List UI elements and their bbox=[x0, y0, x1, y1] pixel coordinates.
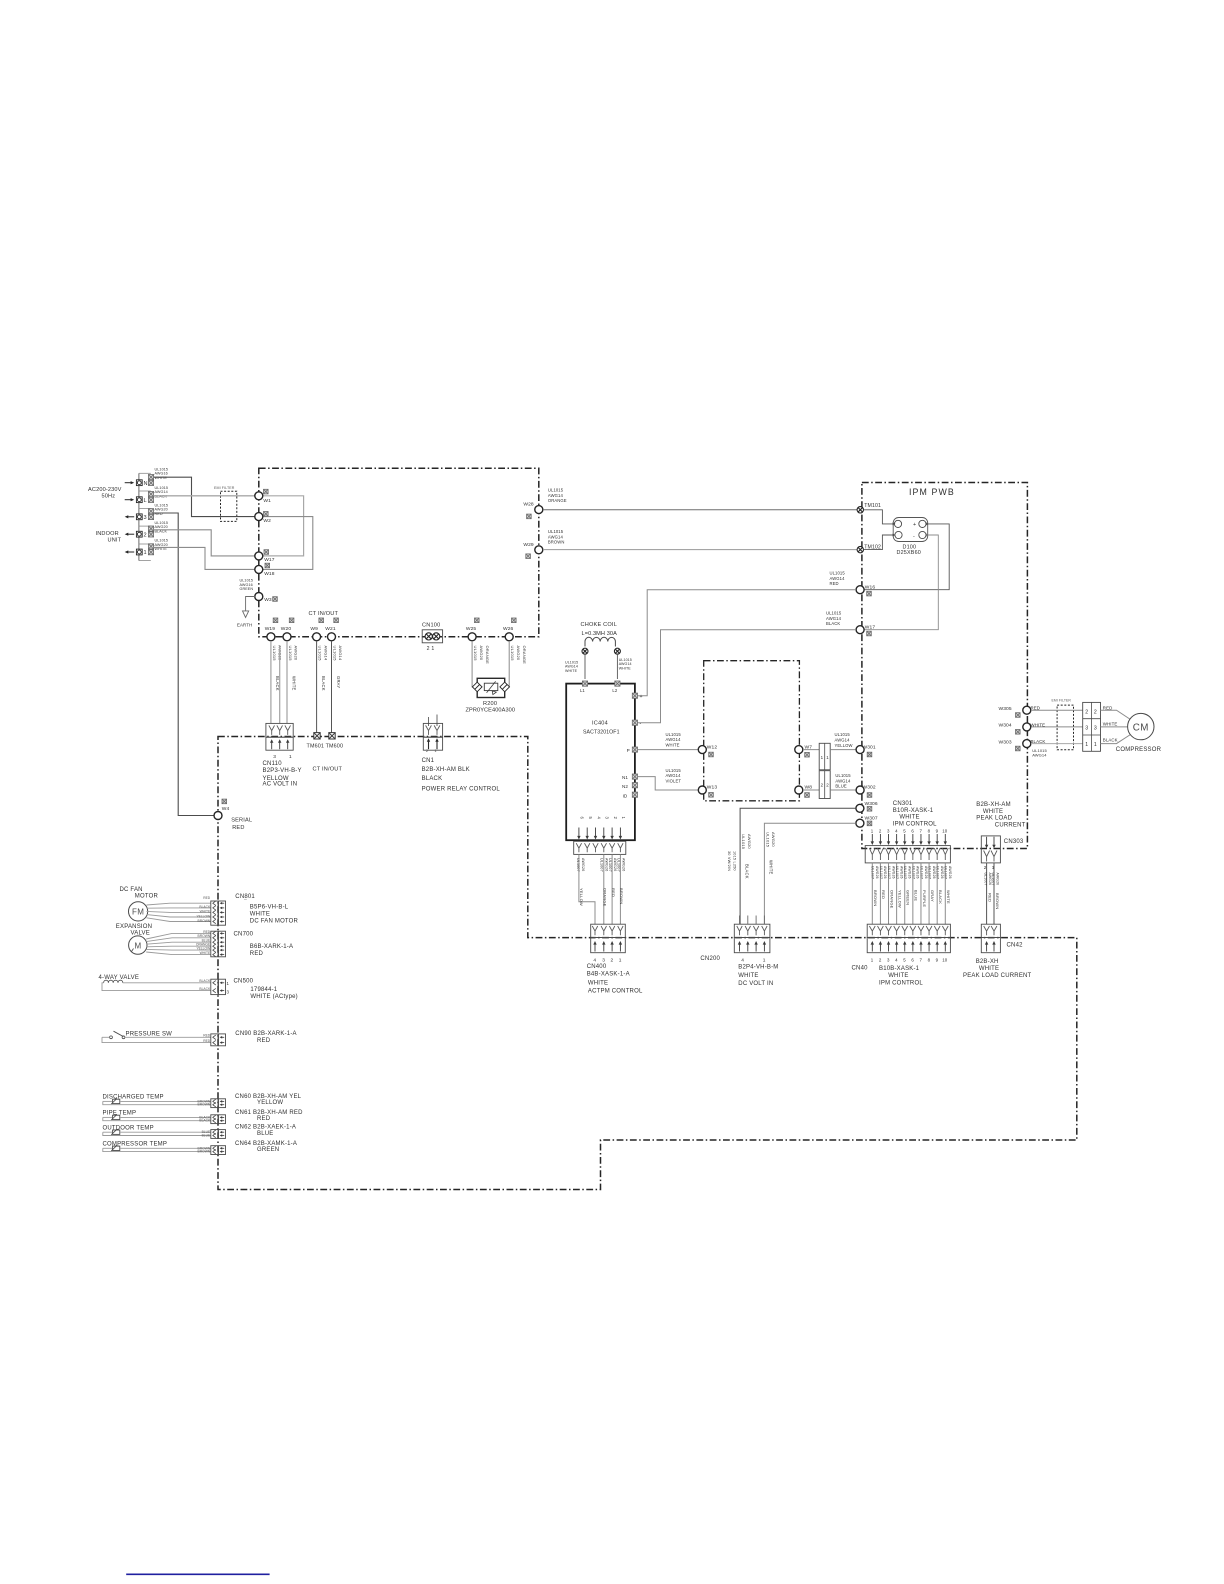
wire choke right to IC404 L2 bbox=[616, 654, 618, 679]
control PWB outline (lower dash-dot polygon) bbox=[218, 737, 1077, 1190]
svg-text:WHITE: WHITE bbox=[250, 912, 270, 918]
svg-text:UL1015: UL1015 bbox=[288, 646, 293, 662]
svg-text:MOTOR: MOTOR bbox=[135, 894, 159, 900]
svg-text:CN200: CN200 bbox=[700, 956, 720, 962]
svg-text:AWG26: AWG26 bbox=[940, 866, 944, 879]
wire table to compressor white bbox=[1101, 726, 1129, 728]
svg-text:UL1015: UL1015 bbox=[741, 834, 746, 850]
IPM PWB outline (dash-dot box) bbox=[862, 483, 1028, 849]
svg-text:BLACK: BLACK bbox=[744, 864, 749, 879]
svg-text:W17: W17 bbox=[865, 624, 876, 630]
terminal W16 bbox=[856, 586, 864, 594]
terminal W13 bbox=[698, 786, 706, 794]
IC404 output connector (6P socket) bbox=[574, 841, 626, 854]
IC404 bottom pins arrows bbox=[578, 828, 580, 837]
svg-text:UL1015: UL1015 bbox=[826, 611, 842, 616]
wire CN303 pin2 to CN42 bbox=[986, 863, 988, 924]
connector CN801 B5P6-VH-B-L bbox=[211, 901, 218, 925]
terminal W3 earth bbox=[255, 593, 263, 601]
svg-text:WHITE: WHITE bbox=[155, 476, 168, 480]
thermistor PIPE TEMP bbox=[103, 1117, 211, 1120]
svg-text:WHITE (ACtype): WHITE (ACtype) bbox=[250, 994, 297, 1000]
svg-text:3: 3 bbox=[1094, 726, 1097, 732]
compressor terminal table bbox=[1083, 702, 1101, 751]
active converter module IC404 SACT3201OF1 bbox=[566, 684, 635, 841]
terminal W307 bbox=[856, 819, 864, 827]
svg-text:ORANGE: ORANGE bbox=[485, 646, 490, 665]
svg-text:W2: W2 bbox=[263, 518, 271, 524]
terminal W306 bbox=[856, 804, 864, 812]
svg-text:CURRENT: CURRENT bbox=[995, 822, 1026, 828]
svg-text:BLACK: BLACK bbox=[826, 621, 840, 626]
wire W29 to TM102 bbox=[543, 549, 857, 551]
svg-text:DC FAN MOTOR: DC FAN MOTOR bbox=[250, 919, 299, 925]
svg-text:1: 1 bbox=[435, 749, 437, 753]
svg-text:W1: W1 bbox=[263, 498, 271, 504]
svg-text:W28: W28 bbox=[523, 502, 534, 508]
svg-text:WHITE: WHITE bbox=[1031, 722, 1046, 727]
svg-text:BLACK: BLACK bbox=[1103, 738, 1118, 743]
svg-text:IC404: IC404 bbox=[592, 721, 608, 727]
svg-text:GREEN: GREEN bbox=[906, 890, 911, 905]
terminal W9 bbox=[313, 633, 321, 641]
svg-text:FM: FM bbox=[132, 907, 144, 916]
terminal TM600 bbox=[329, 733, 335, 739]
thermistor COMPRESSOR TEMP bbox=[103, 1148, 211, 1151]
svg-text:L2: L2 bbox=[612, 688, 617, 693]
svg-text:R200: R200 bbox=[483, 701, 497, 707]
svg-text:AWG26: AWG26 bbox=[948, 866, 952, 879]
svg-text:+: + bbox=[913, 522, 916, 528]
wire IC404 pin2 red to CN400 bbox=[611, 854, 613, 924]
svg-text:W306: W306 bbox=[865, 801, 878, 807]
svg-text:RED: RED bbox=[257, 1038, 271, 1044]
arrow into N bbox=[125, 482, 132, 484]
svg-text:UL1007: UL1007 bbox=[600, 858, 604, 872]
wire W1 loop to W17 inside noise filter PWB bbox=[263, 496, 304, 556]
arrow out of 2 bbox=[127, 533, 134, 535]
svg-text:AWG14: AWG14 bbox=[548, 534, 564, 539]
svg-text:AWG26: AWG26 bbox=[891, 866, 895, 879]
svg-text:W16: W16 bbox=[865, 584, 876, 590]
svg-text:CN100: CN100 bbox=[422, 622, 440, 628]
wire W304 white to compressor connector bbox=[1031, 726, 1083, 728]
IC404 pin N2 bbox=[632, 783, 637, 788]
svg-text:W21: W21 bbox=[325, 626, 336, 632]
svg-text:CN61 B2B-XH-AM RED: CN61 B2B-XH-AM RED bbox=[235, 1110, 303, 1116]
svg-text:UL1015: UL1015 bbox=[830, 571, 846, 576]
svg-text:CN42: CN42 bbox=[1007, 943, 1024, 949]
wire W25 to varistor R200 bbox=[472, 641, 474, 687]
svg-text:B10R-XASK-1: B10R-XASK-1 bbox=[893, 808, 934, 814]
svg-text:CN40: CN40 bbox=[852, 965, 869, 971]
terminal W18 bbox=[255, 565, 263, 573]
svg-text:RED: RED bbox=[611, 888, 616, 897]
terminal TM102 bbox=[857, 546, 863, 552]
svg-text:B2B-XH-AM BLK: B2B-XH-AM BLK bbox=[422, 767, 470, 773]
svg-text:UL1015: UL1015 bbox=[548, 529, 564, 534]
svg-text:W13: W13 bbox=[707, 785, 718, 791]
svg-text:1: 1 bbox=[619, 958, 622, 964]
svg-text:CN64 B2B-XAMK-1-A: CN64 B2B-XAMK-1-A bbox=[235, 1141, 297, 1147]
svg-text:179844-1: 179844-1 bbox=[250, 987, 277, 993]
terminal W7 bbox=[795, 746, 803, 754]
svg-text:AWG14: AWG14 bbox=[323, 646, 328, 661]
svg-text:GRAY: GRAY bbox=[336, 676, 341, 688]
svg-text:N1: N1 bbox=[622, 775, 628, 780]
svg-text:IPM CONTROL: IPM CONTROL bbox=[879, 981, 923, 987]
svg-text:CT IN/OUT: CT IN/OUT bbox=[313, 767, 343, 773]
svg-text:10: 10 bbox=[942, 958, 947, 963]
svg-text:RED: RED bbox=[203, 930, 211, 934]
terminal W20 bbox=[283, 633, 291, 641]
svg-text:4: 4 bbox=[593, 958, 596, 964]
svg-text:VALVE: VALVE bbox=[131, 930, 150, 936]
svg-text:WHITE: WHITE bbox=[769, 860, 774, 875]
svg-text:1: 1 bbox=[763, 958, 766, 964]
svg-text:GRAY: GRAY bbox=[930, 890, 935, 902]
IC404 pin - bbox=[632, 720, 637, 725]
svg-text:UL1007: UL1007 bbox=[927, 866, 931, 879]
svg-text:UL1015: UL1015 bbox=[766, 832, 771, 848]
svg-text:UL1015: UL1015 bbox=[666, 732, 682, 737]
svg-text:RED: RED bbox=[1103, 706, 1113, 711]
svg-text:2: 2 bbox=[611, 958, 614, 964]
svg-text:W17: W17 bbox=[264, 557, 275, 563]
svg-text:UL1007: UL1007 bbox=[911, 866, 915, 879]
wire L black to W1 through EMI filter bbox=[154, 495, 255, 497]
terminal W1 bbox=[255, 492, 263, 500]
connector CN1 B2B-XH-AM bbox=[428, 717, 430, 726]
svg-text:UL1015: UL1015 bbox=[510, 646, 515, 662]
svg-text:W18: W18 bbox=[264, 571, 275, 577]
terminal W8 bbox=[795, 786, 803, 794]
terminal W12 bbox=[698, 746, 706, 754]
svg-text:4: 4 bbox=[741, 958, 744, 964]
connector CN42 B2B-XH bbox=[981, 924, 1000, 937]
connector CN700 B6B-XARK-1-A bbox=[211, 931, 218, 957]
svg-text:W20: W20 bbox=[281, 626, 292, 632]
svg-text:UL1015: UL1015 bbox=[835, 773, 851, 778]
svg-text:3: 3 bbox=[1085, 726, 1088, 732]
svg-text:UL1007: UL1007 bbox=[984, 873, 988, 886]
IC404 pin N1 bbox=[632, 774, 637, 779]
svg-text:WHITE: WHITE bbox=[291, 676, 296, 691]
svg-text:W25: W25 bbox=[466, 626, 477, 632]
svg-text:1015 L250: 1015 L250 bbox=[733, 851, 737, 871]
terminal W19 bbox=[267, 633, 275, 641]
svg-text:CM: CM bbox=[1133, 722, 1149, 733]
svg-text:1: 1 bbox=[289, 754, 292, 760]
connector CN110 B2P3-VH-B-Y bbox=[266, 723, 293, 737]
wire W307 to CN200 pin1 bbox=[764, 823, 855, 924]
svg-text:UL1015: UL1015 bbox=[272, 646, 277, 662]
svg-text:ORANGE: ORANGE bbox=[522, 646, 527, 665]
crimp joints at terminal block bbox=[148, 475, 153, 480]
svg-text:BROWN: BROWN bbox=[198, 1150, 211, 1154]
interconnect plug 2-2 bbox=[819, 771, 830, 799]
wire bundle CN301 to CN40 (10 wires) bbox=[871, 863, 873, 924]
wire table to compressor red bbox=[1101, 710, 1131, 719]
svg-text:YELLOW: YELLOW bbox=[257, 1100, 283, 1106]
connector CN90 B2B-XARK-1-A bbox=[211, 1034, 218, 1046]
svg-text:EXPANSION: EXPANSION bbox=[116, 924, 152, 930]
svg-text:N2: N2 bbox=[622, 784, 628, 789]
choke terminal right bbox=[614, 648, 620, 654]
compressor motor CM bbox=[1128, 713, 1154, 739]
svg-text:ID: ID bbox=[623, 793, 628, 798]
svg-text:B6B-XARK-1-A: B6B-XARK-1-A bbox=[250, 944, 293, 950]
terminal W17 (noise filter) bbox=[255, 552, 263, 560]
svg-text:DC VOLT IN: DC VOLT IN bbox=[738, 981, 773, 987]
svg-text:WHITE: WHITE bbox=[1103, 721, 1118, 726]
reactor dash-dot box (middle) bbox=[704, 661, 800, 801]
svg-text:BLACK: BLACK bbox=[199, 1119, 211, 1123]
wire W17 to IC404 - terminal bbox=[637, 630, 856, 723]
svg-text:AWG20: AWG20 bbox=[747, 834, 752, 849]
svg-text:BROWN: BROWN bbox=[198, 919, 211, 923]
wire N white to W2 bbox=[154, 477, 255, 516]
svg-text:W307: W307 bbox=[865, 816, 878, 822]
svg-text:UL1015: UL1015 bbox=[548, 488, 564, 493]
svg-text:RED: RED bbox=[232, 825, 244, 831]
connector CN100 bbox=[422, 630, 442, 643]
svg-text:PURPLE: PURPLE bbox=[922, 890, 927, 907]
svg-text:W26: W26 bbox=[503, 626, 514, 632]
svg-text:YELLOW: YELLOW bbox=[579, 888, 584, 906]
wires pressure switch to CN90 bbox=[102, 1036, 110, 1038]
svg-text:WHITE: WHITE bbox=[738, 973, 758, 979]
svg-text:-: - bbox=[913, 534, 915, 540]
svg-text:2: 2 bbox=[1094, 709, 1097, 715]
svg-text:WHITE: WHITE bbox=[979, 966, 999, 972]
svg-text:TM101: TM101 bbox=[864, 503, 881, 509]
wire IC404 N1 to W13 bbox=[638, 777, 699, 790]
svg-text:RED: RED bbox=[830, 581, 839, 586]
svg-text:AWG20: AWG20 bbox=[479, 646, 484, 661]
mains terminal block TB (N L 3 2 1) bbox=[138, 473, 140, 560]
wire W21 to TM600 bbox=[331, 641, 333, 733]
svg-text:WHITE: WHITE bbox=[565, 669, 578, 673]
IC404 pin P bbox=[632, 747, 637, 752]
svg-text:B5P6-VH-B-L: B5P6-VH-B-L bbox=[250, 905, 289, 911]
svg-text:BROWN: BROWN bbox=[548, 540, 565, 545]
svg-text:CN62 B2B-XAEK-1-A: CN62 B2B-XAEK-1-A bbox=[235, 1125, 296, 1131]
svg-text:SERIAL: SERIAL bbox=[231, 817, 252, 823]
svg-text:UL1007: UL1007 bbox=[576, 858, 580, 872]
svg-text:¯: ¯ bbox=[243, 899, 247, 906]
svg-text:BLACK: BLACK bbox=[199, 987, 211, 991]
svg-text:RED: RED bbox=[257, 1116, 271, 1122]
wire W8 to interconnect bbox=[803, 789, 819, 791]
connector CN400 B4B-XASK-1-A bbox=[591, 924, 626, 937]
svg-text:L=0.3MH 30A: L=0.3MH 30A bbox=[582, 631, 618, 637]
svg-text:INDOOR: INDOOR bbox=[96, 531, 119, 537]
svg-text:RED: RED bbox=[881, 890, 886, 899]
earth wire bbox=[246, 597, 255, 611]
wire IC404 P to W12 bbox=[638, 749, 699, 751]
svg-text:IPM PWB: IPM PWB bbox=[909, 487, 955, 497]
svg-text:CN500: CN500 bbox=[234, 979, 254, 985]
svg-text:2 1: 2 1 bbox=[427, 646, 435, 652]
wire table to compressor black bbox=[1101, 735, 1131, 744]
svg-text:10: 10 bbox=[942, 828, 947, 833]
svg-text:CN60 B2B-XH-AM YEL: CN60 B2B-XH-AM YEL bbox=[235, 1094, 302, 1100]
svg-text:AWG26: AWG26 bbox=[899, 866, 903, 879]
svg-text:AWG26: AWG26 bbox=[613, 858, 617, 871]
svg-text:CN90 B2B-XARK-1-A: CN90 B2B-XARK-1-A bbox=[235, 1031, 296, 1037]
svg-text:AWG26: AWG26 bbox=[622, 858, 626, 871]
wire IC404 pin1 brown to CN400 bbox=[619, 854, 621, 924]
svg-text:B4B-XASK-1-A: B4B-XASK-1-A bbox=[587, 972, 630, 978]
svg-text:AWG26: AWG26 bbox=[605, 858, 609, 871]
choke terminal left bbox=[582, 648, 588, 654]
svg-text:CT IN/OUT: CT IN/OUT bbox=[309, 611, 339, 617]
wire W303 black to compressor connector bbox=[1031, 743, 1083, 745]
svg-text:30 VW/2IN: 30 VW/2IN bbox=[727, 851, 731, 871]
connector CN60 bbox=[211, 1099, 218, 1108]
svg-text:ACTPM CONTROL: ACTPM CONTROL bbox=[588, 988, 643, 994]
wires M to CN700 bbox=[146, 933, 211, 939]
DC fan motor FM bbox=[129, 902, 148, 921]
svg-text:COMPRESSOR: COMPRESSOR bbox=[1116, 747, 1162, 753]
svg-text:BLUE: BLUE bbox=[835, 784, 846, 789]
connector CN62 bbox=[211, 1130, 218, 1139]
svg-text:BROWN: BROWN bbox=[995, 893, 1000, 909]
svg-text:L1: L1 bbox=[580, 688, 585, 693]
wire W305 red to compressor connector bbox=[1031, 709, 1083, 711]
svg-text:TM601 TM600: TM601 TM600 bbox=[307, 744, 344, 750]
svg-text:DISCHARGED TEMP: DISCHARGED TEMP bbox=[103, 1095, 164, 1101]
wire IC404 pin3 orange to CN400 bbox=[603, 854, 605, 924]
svg-text:B2P4-VH-B-M: B2P4-VH-B-M bbox=[738, 965, 778, 971]
terminal W301 bbox=[856, 746, 864, 754]
svg-text:WHITE: WHITE bbox=[588, 980, 608, 986]
terminal W2 bbox=[255, 513, 263, 521]
terminal W28 bbox=[535, 506, 543, 514]
svg-text:AWG14: AWG14 bbox=[548, 493, 564, 498]
wire W9 to TM601 bbox=[316, 641, 318, 733]
svg-text:2: 2 bbox=[1085, 709, 1088, 715]
svg-text:UL1015: UL1015 bbox=[473, 646, 478, 662]
wire terminal1 white to W18 bbox=[154, 547, 255, 569]
svg-text:PEAK LOAD: PEAK LOAD bbox=[976, 816, 1012, 822]
svg-text:BLACK: BLACK bbox=[199, 905, 211, 909]
svg-text:UL1007: UL1007 bbox=[944, 866, 948, 879]
terminal W17 (IPM) bbox=[856, 626, 864, 634]
svg-text:1: 1 bbox=[144, 550, 147, 556]
svg-text:B2B-XH-AM: B2B-XH-AM bbox=[976, 802, 1010, 808]
svg-text:BLACK: BLACK bbox=[422, 776, 443, 782]
svg-text:2: 2 bbox=[144, 532, 147, 538]
svg-text:W29: W29 bbox=[523, 542, 534, 548]
terminal W305 bbox=[1023, 706, 1031, 714]
svg-text:ORANGE: ORANGE bbox=[548, 498, 567, 503]
svg-text:3: 3 bbox=[273, 754, 276, 760]
noise filter PWB outline (top dash-dot box) bbox=[259, 468, 539, 637]
connector CN40 B10B-XASK-1 bbox=[867, 924, 950, 937]
IC404 pin L2 bbox=[615, 681, 620, 686]
connector CN64 bbox=[211, 1146, 218, 1155]
svg-text:D25XB60: D25XB60 bbox=[897, 550, 921, 556]
svg-text:BLACK: BLACK bbox=[199, 979, 211, 983]
svg-text:1: 1 bbox=[1085, 742, 1088, 748]
svg-text:UL1007: UL1007 bbox=[903, 866, 907, 879]
wire W20 to CN110 pin1 bbox=[286, 641, 288, 723]
svg-text:AWG14: AWG14 bbox=[338, 646, 343, 661]
arrow into L bbox=[125, 499, 132, 501]
svg-text:N: N bbox=[144, 481, 148, 487]
svg-text:UL1007: UL1007 bbox=[887, 866, 891, 879]
svg-text:W304: W304 bbox=[999, 723, 1012, 729]
page footer rule bbox=[126, 1573, 269, 1575]
svg-text:AWG14: AWG14 bbox=[666, 737, 682, 742]
svg-text:BROWN: BROWN bbox=[198, 934, 211, 938]
EMI filter box (mains) bbox=[221, 491, 237, 521]
svg-text:W12: W12 bbox=[707, 744, 718, 750]
svg-text:50Hz: 50Hz bbox=[102, 494, 116, 500]
svg-text:W19: W19 bbox=[265, 626, 276, 632]
wire W26 to varistor R200 bbox=[507, 641, 509, 687]
svg-text:WHITE: WHITE bbox=[888, 973, 908, 979]
arrow out of 3 bbox=[127, 516, 134, 518]
svg-text:UL1007: UL1007 bbox=[991, 873, 995, 886]
svg-text:B2B-XH: B2B-XH bbox=[976, 959, 999, 965]
svg-text:CN1: CN1 bbox=[422, 758, 435, 764]
terminal W26 bbox=[505, 633, 513, 641]
svg-text:UL1015: UL1015 bbox=[318, 646, 323, 662]
varistor R200 bbox=[477, 678, 505, 697]
wire W28 to TM101 bbox=[543, 509, 857, 511]
svg-text:AWG20: AWG20 bbox=[771, 832, 776, 847]
terminal TM601 bbox=[314, 733, 320, 739]
svg-text:BLACK: BLACK bbox=[321, 676, 326, 691]
wire TM102 to bridge D100 bbox=[864, 535, 895, 550]
connector CN61 bbox=[211, 1115, 218, 1124]
svg-text:RED: RED bbox=[250, 951, 264, 957]
svg-text:W305: W305 bbox=[999, 706, 1012, 712]
svg-text:WHITE: WHITE bbox=[666, 742, 680, 747]
svg-text:RED: RED bbox=[987, 893, 992, 902]
svg-text:UNIT: UNIT bbox=[108, 538, 122, 544]
svg-text:2: 2 bbox=[426, 749, 428, 753]
svg-text:PEAK LOAD CURRENT: PEAK LOAD CURRENT bbox=[963, 973, 1032, 979]
svg-text:AWG26: AWG26 bbox=[883, 866, 887, 879]
wire IC404 pin6 yellow to CN400 bbox=[579, 854, 595, 924]
wire bridge + to W16 bbox=[864, 524, 949, 590]
svg-text:AWG26: AWG26 bbox=[916, 866, 920, 879]
svg-text:YELLOW: YELLOW bbox=[196, 947, 211, 951]
wire choke left to IC404 L1 bbox=[584, 654, 586, 679]
svg-text:W303: W303 bbox=[999, 739, 1012, 745]
pressure switch symbol bbox=[110, 1036, 113, 1039]
svg-text:AWG26: AWG26 bbox=[581, 858, 585, 871]
svg-text:B10B-XASK-1: B10B-XASK-1 bbox=[879, 966, 920, 972]
svg-text:UL1007: UL1007 bbox=[936, 866, 940, 879]
svg-text:YELLOW: YELLOW bbox=[835, 743, 853, 748]
wire CN303 pin1 to CN42 bbox=[993, 863, 995, 924]
svg-text:VIOLET: VIOLET bbox=[666, 778, 682, 783]
svg-text:BROWN: BROWN bbox=[873, 890, 878, 906]
svg-text:AWG14: AWG14 bbox=[666, 773, 682, 778]
svg-text:AWG14: AWG14 bbox=[826, 616, 842, 621]
svg-text:W4: W4 bbox=[222, 806, 230, 812]
svg-text:OUTDOOR TEMP: OUTDOOR TEMP bbox=[103, 1125, 154, 1131]
wire W16 to IC404 + terminal bbox=[637, 590, 856, 696]
svg-text:WHITE: WHITE bbox=[200, 910, 211, 914]
expansion valve motor M bbox=[129, 936, 147, 954]
svg-text:SACT3201OF1: SACT3201OF1 bbox=[583, 730, 620, 736]
